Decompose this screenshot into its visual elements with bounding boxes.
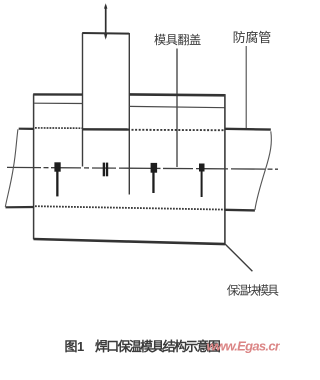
pipe top edge: hidden dashed (left of opening) <box>35 127 83 129</box>
pipe top edge: right stub (outside mold) <box>225 128 271 131</box>
bolt 3 (fixing pin, right) <box>199 164 205 198</box>
bolt 2 (fixing pin, middle) <box>151 163 158 193</box>
pipe bottom edge: left stub <box>6 206 35 209</box>
bolt 1 (fixing pin, left) <box>54 162 60 196</box>
mold bottom edge <box>34 239 226 244</box>
mold right edge <box>224 94 226 244</box>
leader line for label 模具翻盖 <box>176 49 178 168</box>
svg-text:图1: 图1 <box>65 339 85 354</box>
leader line for label 防腐管 <box>245 46 247 129</box>
mold top inner line (right) <box>130 106 226 107</box>
mold top inner line (left) <box>34 102 82 104</box>
leader line for label 保温块模具 <box>225 244 252 271</box>
pipe top edge: left stub (outside mold) <box>19 128 35 130</box>
pipe break line (left end) <box>5 129 18 207</box>
pipe bottom edge: hidden dashed <box>35 206 225 209</box>
svg-text:模具翻盖: 模具翻盖 <box>154 33 201 47</box>
svg-text:焊口保温模具结构示意图: 焊口保温模具结构示意图 <box>95 339 220 354</box>
pipe top edge: visible through pour opening <box>83 128 131 131</box>
mold body top edge (right of funnel) <box>129 93 225 97</box>
funnel box left wall <box>82 33 84 167</box>
svg-text:www.Egas.cn: www.Egas.cn <box>207 339 281 354</box>
pipe top edge: hidden dashed (right of opening) <box>132 129 225 131</box>
weld joint marks (double bar at pipe center) <box>103 163 109 177</box>
funnel box top edge <box>82 32 129 35</box>
mold body top edge (left of funnel) <box>33 93 82 96</box>
svg-text:防腐管: 防腐管 <box>233 30 272 45</box>
pipe bottom edge: right stub <box>225 209 255 212</box>
funnel box right wall <box>128 33 130 195</box>
pipe break line (right end) <box>255 131 271 210</box>
arrow (pour direction indicator) <box>104 3 107 40</box>
pipe centerline (dash-dot axis) <box>7 167 278 169</box>
mold left edge <box>33 94 35 239</box>
svg-text:保温块模具: 保温块模具 <box>227 284 279 298</box>
